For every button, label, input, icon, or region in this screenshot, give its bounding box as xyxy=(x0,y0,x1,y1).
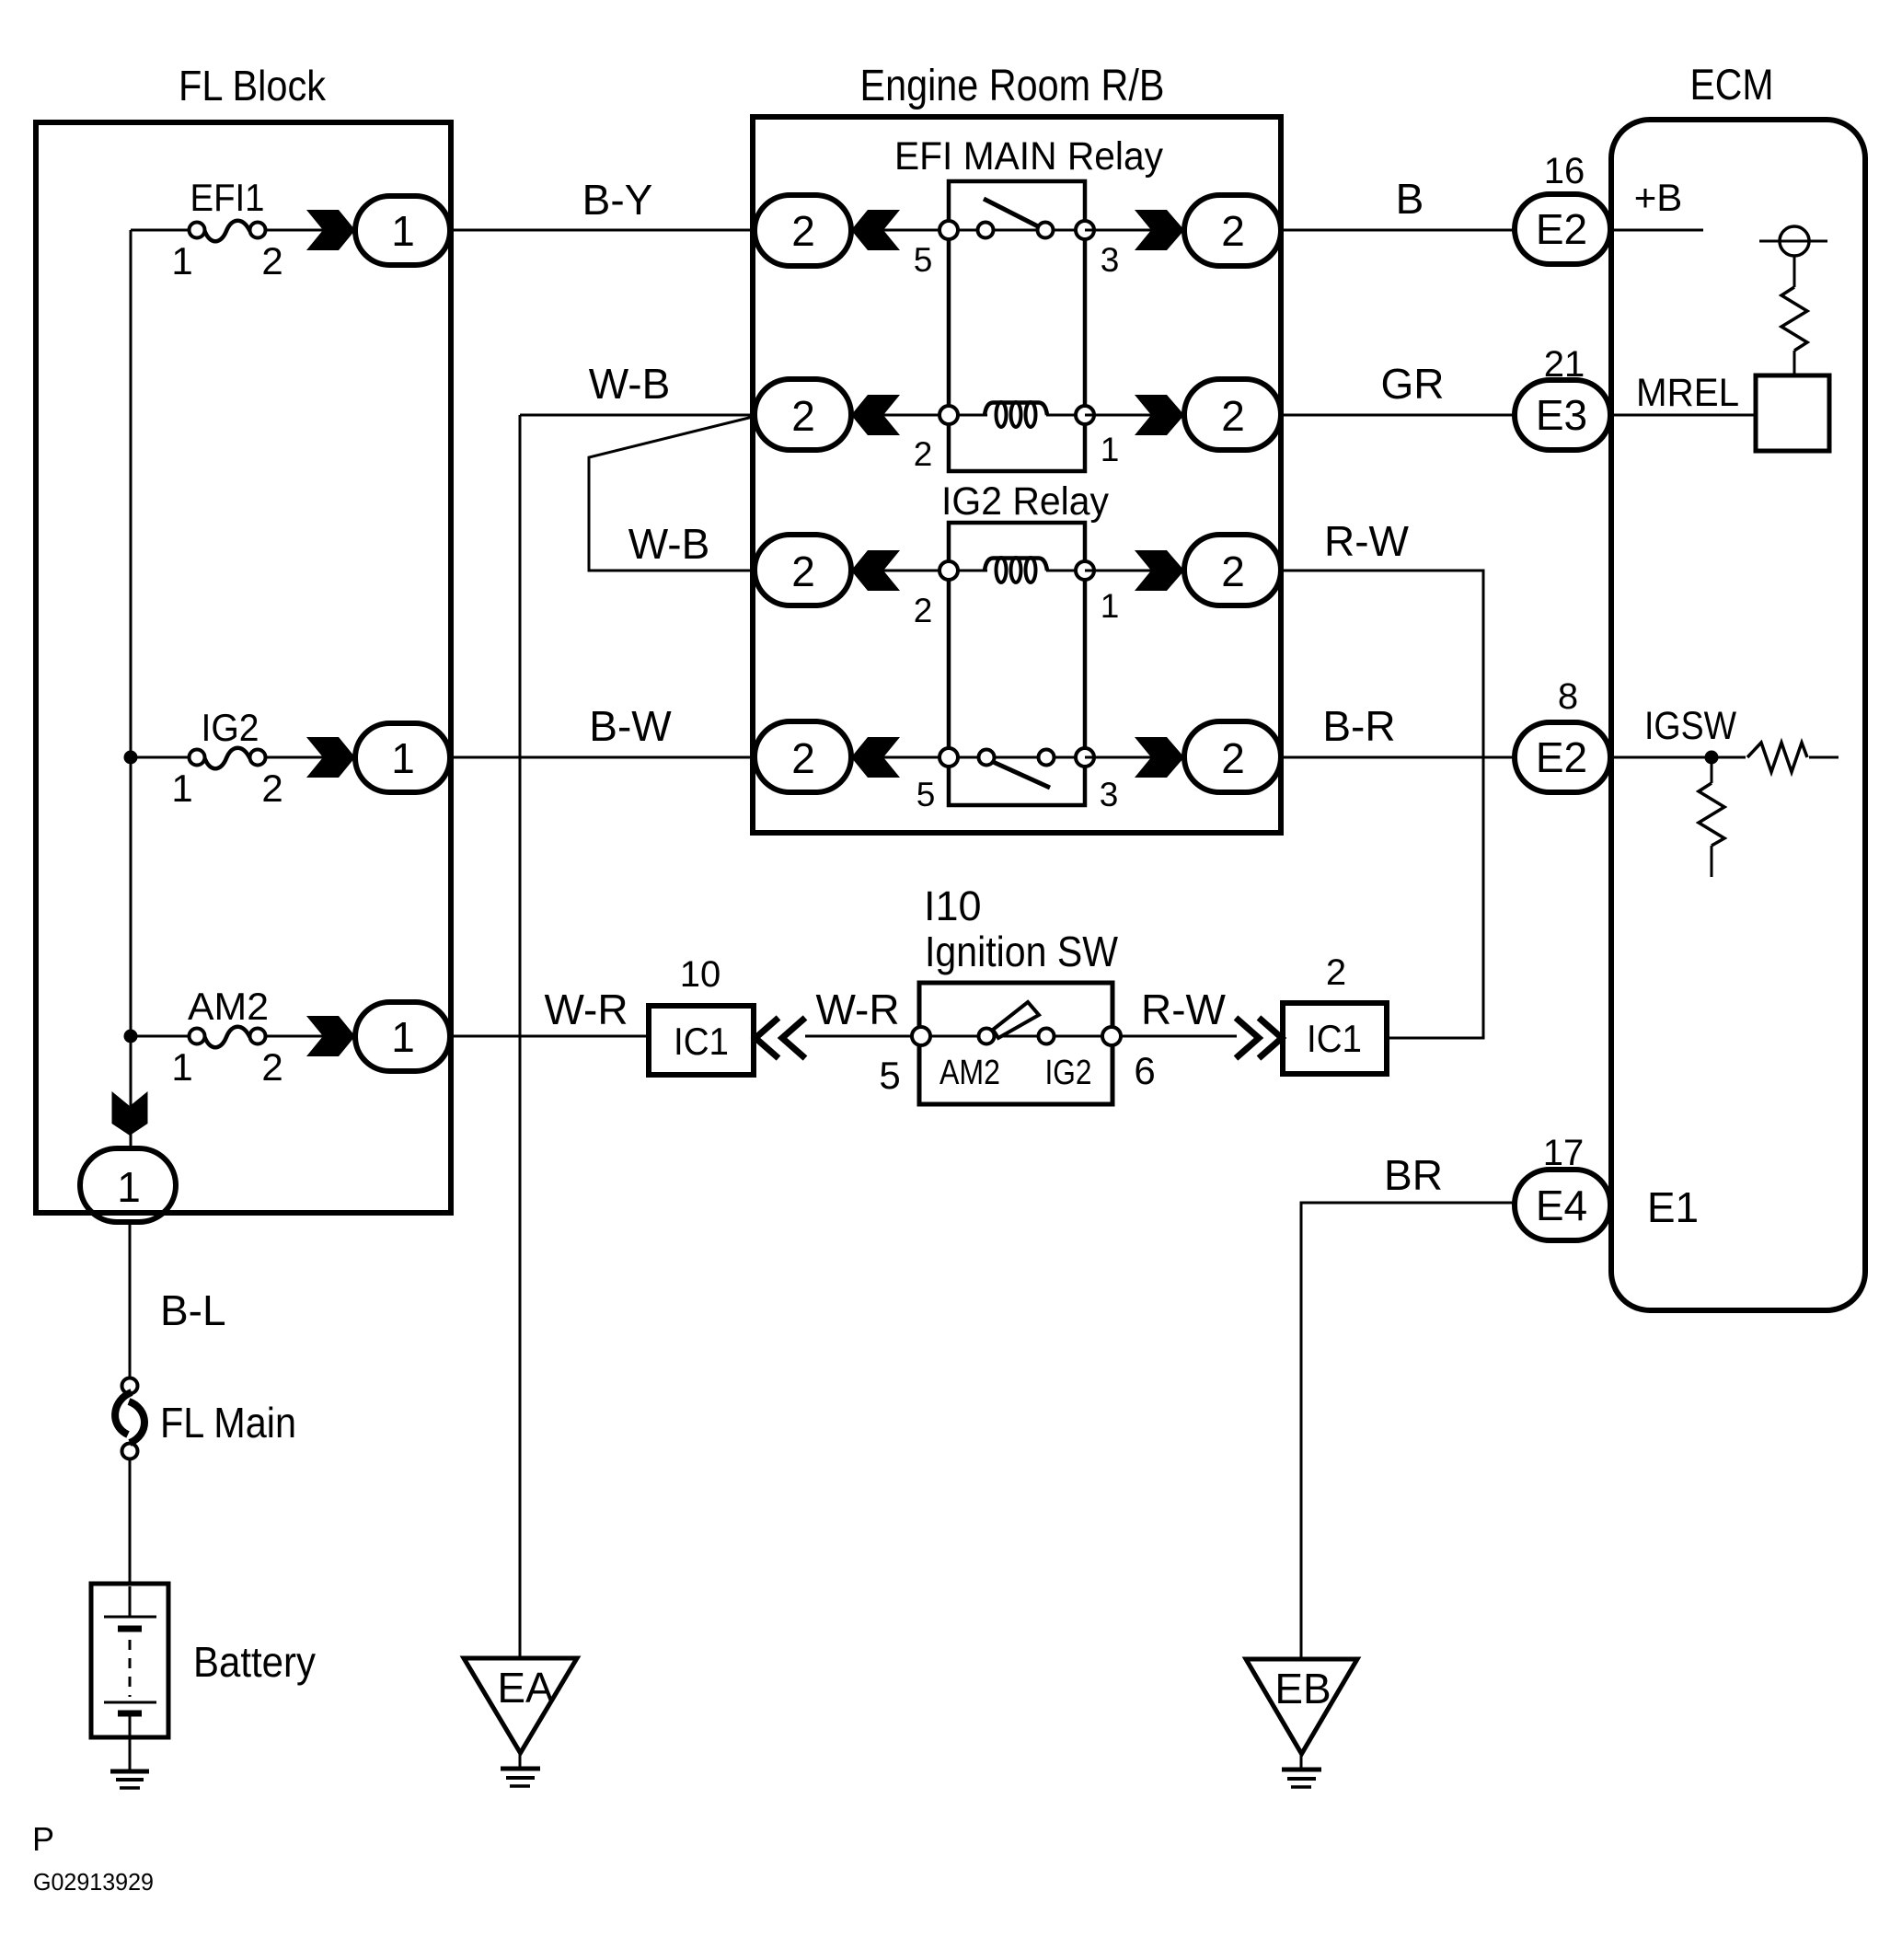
coil row xyxy=(958,414,987,417)
svg-text:IC1: IC1 xyxy=(1307,1017,1362,1060)
wire junction down xyxy=(1711,757,1713,783)
wire R-W row3 down to IC1 xyxy=(1281,571,1483,1038)
svg-text:B: B xyxy=(1396,175,1424,223)
arrow into FL connector AM2 row xyxy=(306,1016,355,1056)
ECM box xyxy=(1611,120,1865,1310)
svg-text:P: P xyxy=(32,1820,54,1858)
wire B-R row4 xyxy=(1281,756,1516,759)
connector 2 (engine left, row3) xyxy=(755,535,851,605)
arrow into FL connector row1 xyxy=(306,210,355,250)
Engine Room R/B box xyxy=(753,117,1281,833)
svg-text:2: 2 xyxy=(1221,548,1245,595)
wire W-R AM2 row to IC1 xyxy=(450,1035,649,1038)
svg-text:FL Main: FL Main xyxy=(160,1399,296,1447)
svg-text:Ignition SW: Ignition SW xyxy=(925,928,1119,975)
svg-text:10: 10 xyxy=(680,954,721,995)
svg-text:IG2 Relay: IG2 Relay xyxy=(941,479,1109,524)
wire: AM2 fuse feed xyxy=(131,1035,190,1038)
wire EA drop xyxy=(519,415,522,1658)
svg-text:FL Block: FL Block xyxy=(179,62,327,110)
wire relay pin1 to right connector row2 xyxy=(1085,414,1152,417)
ground EB triangle xyxy=(1246,1659,1357,1787)
svg-text:1: 1 xyxy=(391,207,415,255)
svg-text:IC1: IC1 xyxy=(674,1020,729,1063)
svg-text:E1: E1 xyxy=(1647,1183,1699,1231)
wire: row1 fuse feed xyxy=(131,229,190,232)
contact row xyxy=(958,756,977,759)
connector 1 (FL block, bottom) xyxy=(80,1148,176,1222)
svg-text:AM2: AM2 xyxy=(939,1054,1000,1092)
svg-text:2: 2 xyxy=(791,392,815,440)
svg-text:16: 16 xyxy=(1544,151,1585,191)
wire resistor open stub xyxy=(1711,846,1713,877)
internal wires xyxy=(930,1035,978,1038)
contact row xyxy=(958,229,977,232)
relay IG2 Relay xyxy=(914,479,1120,813)
svg-text:IG2: IG2 xyxy=(202,706,259,749)
svg-text:2: 2 xyxy=(791,734,815,782)
connector 2 (engine right, row3) xyxy=(1184,535,1281,605)
wire FL Main to battery xyxy=(129,1458,132,1584)
svg-text:2: 2 xyxy=(791,207,815,255)
wire: fuse AM2 to connector xyxy=(266,1035,324,1038)
svg-text:AM2: AM2 xyxy=(188,985,269,1028)
wire W-R ignition to IC1 left xyxy=(805,1035,913,1038)
arrow left row2 xyxy=(851,395,900,435)
svg-text:BR: BR xyxy=(1384,1151,1443,1199)
svg-text:ECM: ECM xyxy=(1690,60,1774,109)
svg-text:E2: E2 xyxy=(1536,205,1587,253)
svg-text:2: 2 xyxy=(1221,734,1245,782)
switch blade wedge xyxy=(993,1002,1039,1038)
battery xyxy=(91,1584,316,1737)
wire W-B jumper row2 to row3 xyxy=(589,417,753,571)
svg-text:E3: E3 xyxy=(1536,391,1587,439)
svg-text:1: 1 xyxy=(117,1163,141,1211)
wire relay pin1 to right connector row3 xyxy=(1085,570,1152,572)
svg-text:3: 3 xyxy=(1100,776,1119,813)
resistor (IGSW pull-down, vertical) xyxy=(1699,783,1724,846)
svg-text:E4: E4 xyxy=(1536,1182,1587,1229)
wire row4 arrow to relay pin5 xyxy=(882,756,949,759)
wire power to resistor xyxy=(1793,256,1796,287)
svg-text:GR: GR xyxy=(1381,360,1445,408)
svg-text:EFI1: EFI1 xyxy=(190,176,265,219)
svg-text:6: 6 xyxy=(1134,1049,1155,1092)
svg-text:R-W: R-W xyxy=(1324,517,1410,565)
svg-text:I10: I10 xyxy=(924,882,982,929)
wire IGSW internal xyxy=(1610,756,1746,759)
svg-text:B-Y: B-Y xyxy=(582,176,653,224)
svg-text:2: 2 xyxy=(1221,207,1245,255)
arrow left row3 xyxy=(851,550,900,591)
resistor (IGSW series, horizontal) xyxy=(1747,743,1807,772)
svg-text:Engine Room R/B: Engine Room R/B xyxy=(860,62,1165,110)
arrow right row1 xyxy=(1135,210,1184,250)
svg-text:EA: EA xyxy=(497,1664,554,1712)
svg-text:2: 2 xyxy=(914,592,933,629)
MREL driver box xyxy=(1756,375,1829,451)
wire row1 arrow to relay pin5 xyxy=(882,229,949,232)
arrow left row4 xyxy=(851,737,900,778)
connector 2 (engine left, row4) xyxy=(755,721,851,792)
arrow into FL connector row4 xyxy=(306,737,355,778)
chevrons >> into IC1 right xyxy=(1236,1018,1259,1058)
wire row2 arrow to relay pin2 xyxy=(882,414,949,417)
arrow right row2 xyxy=(1135,395,1184,435)
wire: fuse EFI1 to connector xyxy=(266,229,324,232)
svg-text:2: 2 xyxy=(791,548,815,595)
svg-text:1: 1 xyxy=(171,1045,192,1089)
svg-text:B-R: B-R xyxy=(1322,702,1395,750)
FL Block box xyxy=(36,122,451,1213)
wire B-Y row1 xyxy=(450,229,755,232)
connector 2 (engine right, row4) xyxy=(1184,721,1281,792)
wire B-L battery to FL block xyxy=(129,1222,132,1378)
wire R-W ignition to IC1 right xyxy=(1121,1035,1237,1038)
wire resistor stub xyxy=(1809,756,1839,759)
wire E3 to MREL driver xyxy=(1610,414,1756,417)
node: bus junction at AM2 row xyxy=(124,1030,138,1043)
svg-text:W-B: W-B xyxy=(628,520,710,568)
wire GR row2 xyxy=(1281,414,1515,417)
svg-text:2: 2 xyxy=(1221,392,1245,440)
svg-text:3: 3 xyxy=(1101,241,1120,279)
connector 2 (engine left, row1) xyxy=(755,195,851,266)
arrow left row1 xyxy=(851,210,900,250)
svg-text:2: 2 xyxy=(261,239,282,282)
svg-text:W-R: W-R xyxy=(815,986,899,1033)
svg-text:5: 5 xyxy=(916,776,936,813)
svg-text:1: 1 xyxy=(391,1013,415,1061)
wire BR from E4 to EB xyxy=(1301,1203,1517,1659)
wire: fuse IG2 to connector xyxy=(266,756,324,759)
connector 1 (FL block, IG2 row) xyxy=(355,723,450,792)
arrow right row3 xyxy=(1135,550,1184,591)
wire B-W row4 xyxy=(450,756,755,759)
svg-text:IG2: IG2 xyxy=(1045,1054,1092,1092)
svg-text:Battery: Battery xyxy=(193,1638,316,1686)
svg-text:EFI MAIN Relay: EFI MAIN Relay xyxy=(894,134,1163,179)
svg-text:+B: +B xyxy=(1634,176,1683,219)
arrow down to battery connector xyxy=(112,1091,148,1136)
connector 1 (FL block, AM2 row) xyxy=(355,1002,450,1071)
chevrons << into IC1 left xyxy=(755,1018,778,1058)
connector 2 (engine right, row1) xyxy=(1184,195,1281,266)
svg-text:MREL: MREL xyxy=(1636,371,1739,415)
svg-text:G02913929: G02913929 xyxy=(33,1868,154,1896)
svg-text:W-B: W-B xyxy=(589,360,671,408)
coil row xyxy=(958,570,987,572)
svg-text:B-L: B-L xyxy=(160,1286,226,1334)
wire row3 arrow to relay pin2 xyxy=(882,570,949,572)
svg-text:1: 1 xyxy=(1101,587,1120,625)
ground EA triangle xyxy=(464,1658,577,1786)
svg-text:5: 5 xyxy=(879,1054,900,1097)
resistor (MREL pull-up) xyxy=(1781,287,1807,351)
connector 1 (FL block, row1) xyxy=(355,196,450,265)
svg-text:E2: E2 xyxy=(1536,733,1587,781)
wire resistor to MREL driver xyxy=(1793,351,1796,375)
svg-text:2: 2 xyxy=(261,1045,282,1089)
svg-text:R-W: R-W xyxy=(1141,986,1227,1033)
svg-text:EB: EB xyxy=(1274,1665,1331,1712)
svg-text:IGSW: IGSW xyxy=(1644,704,1736,748)
fusible link FL Main xyxy=(115,1378,296,1459)
fuse AM2 xyxy=(171,985,282,1089)
svg-text:W-R: W-R xyxy=(544,986,628,1033)
wire B row1 xyxy=(1281,229,1516,232)
ground (battery) xyxy=(110,1771,149,1788)
wire: FL block internal bus vertical xyxy=(130,230,133,1150)
fuse EFI1 xyxy=(171,176,282,282)
svg-text:1: 1 xyxy=(1101,431,1120,468)
wire battery to ground xyxy=(129,1735,132,1770)
svg-text:5: 5 xyxy=(914,241,933,279)
relay EFI MAIN Relay xyxy=(894,134,1163,473)
svg-text:1: 1 xyxy=(391,734,415,782)
Ignition SW box xyxy=(919,983,1112,1104)
connector 2 (engine right, row2) xyxy=(1184,379,1281,450)
svg-text:2: 2 xyxy=(1326,952,1346,993)
wire: row4 fuse feed xyxy=(131,756,190,759)
arrow right row4 xyxy=(1135,737,1184,778)
ignition pins xyxy=(912,1027,930,1045)
wire W-B row2 to EA xyxy=(520,414,755,417)
svg-text:2: 2 xyxy=(914,435,933,473)
node IGSW junction xyxy=(1705,751,1719,765)
svg-text:1: 1 xyxy=(171,767,192,810)
node: bus junction at IG2 row xyxy=(124,751,138,765)
connector 2 (engine left, row2) xyxy=(755,379,851,450)
svg-text:1: 1 xyxy=(171,239,192,282)
fuse IG2 xyxy=(171,706,282,810)
wire relay pin3 to right connector row4 xyxy=(1085,756,1152,759)
power feed symbol xyxy=(1759,226,1827,256)
wire relay pin3 to right connector row1 xyxy=(1085,229,1152,232)
svg-text:8: 8 xyxy=(1558,676,1578,717)
svg-text:2: 2 xyxy=(261,767,282,810)
svg-text:B-W: B-W xyxy=(589,702,672,750)
